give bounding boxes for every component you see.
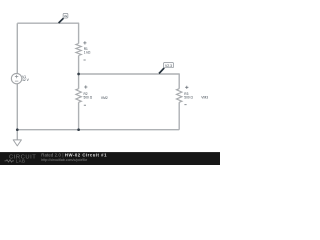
svg-text:12 V: 12 V <box>22 78 30 82</box>
svg-text:V2.3: V2.3 <box>165 64 172 68</box>
svg-text:500 Ω: 500 Ω <box>184 96 193 100</box>
svg-text:VM3: VM3 <box>201 96 208 100</box>
svg-text:500 Ω: 500 Ω <box>84 96 93 100</box>
svg-text:1 kΩ: 1 kΩ <box>84 50 91 54</box>
svg-text:VM2: VM2 <box>101 96 108 100</box>
svg-text:Va: Va <box>64 14 68 18</box>
svg-text:LAB: LAB <box>16 158 25 163</box>
svg-text:http://circuitlab.com/c/pdx9kr: http://circuitlab.com/c/pdx9kr <box>41 158 88 162</box>
svg-text:Rated 2.0 | HW-02 Circuit #1: Rated 2.0 | HW-02 Circuit #1 <box>41 152 107 157</box>
